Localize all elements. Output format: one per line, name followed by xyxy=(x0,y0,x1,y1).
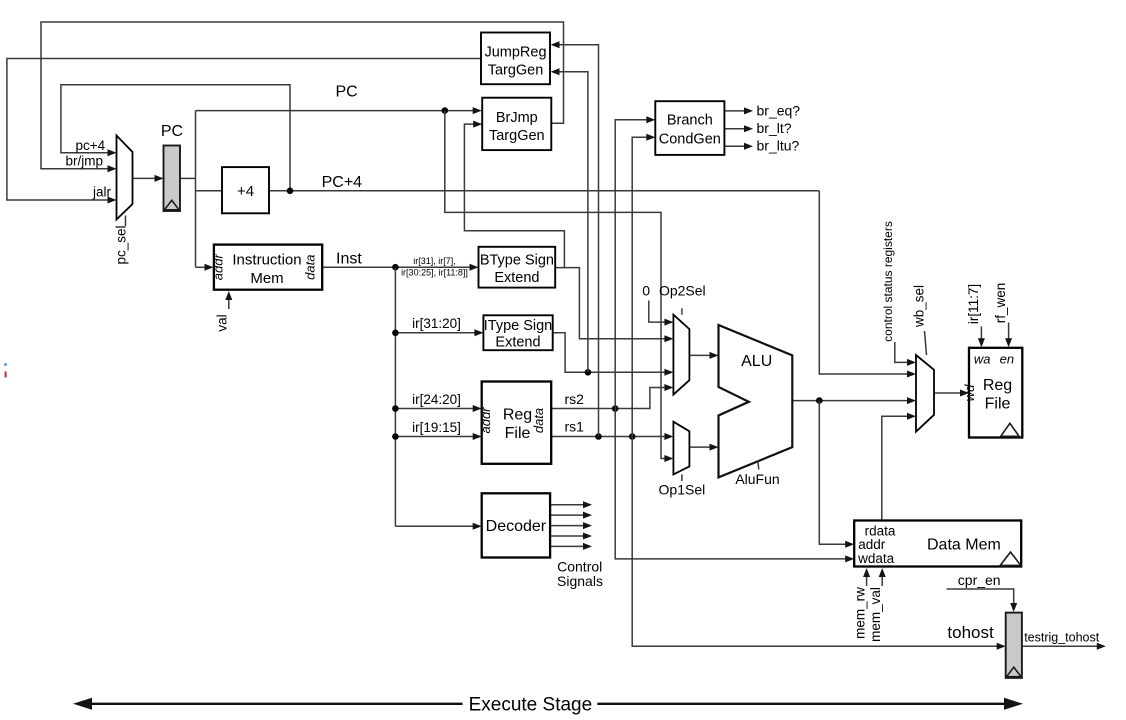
wire control status registers to wb_sel mux xyxy=(895,342,916,366)
node imm junction xyxy=(585,369,592,376)
wire Branch CondGen output br_eq? xyxy=(724,107,753,114)
register PC xyxy=(164,146,181,212)
svg-text:jalr: jalr xyxy=(92,185,112,200)
svg-text:ALU: ALU xyxy=(741,353,772,370)
svg-text:File: File xyxy=(505,425,531,442)
node PC junction on PC line xyxy=(442,107,449,114)
label Op1Sel xyxy=(659,474,706,497)
svg-text:mem_rw: mem_rw xyxy=(852,587,867,639)
svg-text:Decoder: Decoder xyxy=(486,518,547,535)
svg-text:br_eq?: br_eq? xyxy=(757,102,801,118)
block Decoder xyxy=(482,493,550,557)
label br_lt? xyxy=(757,120,792,136)
svg-text:PC: PC xyxy=(336,84,358,101)
svg-text:0: 0 xyxy=(642,283,650,299)
label AluFun xyxy=(735,461,779,488)
node ALU output junction xyxy=(816,397,823,404)
adder U+4 xyxy=(222,167,269,213)
block JumpReg TargGen xyxy=(481,33,550,85)
label br_ltu? xyxy=(757,138,800,154)
wire ir[24:20] to Reg File xyxy=(395,405,481,412)
wire Decoder control signal outputs xyxy=(550,501,592,550)
wire Op1Sel mux output to ALU xyxy=(689,444,718,451)
wire ir[11:7] write-address into Reg File xyxy=(978,327,985,348)
mux Op2Sel xyxy=(673,315,689,395)
svg-text:rs1: rs1 xyxy=(565,419,585,435)
svg-text:ir[24:20]: ir[24:20] xyxy=(412,392,461,407)
wire ir[31:20] to IType Sign Extend xyxy=(395,329,483,336)
block Branch CondGen xyxy=(655,101,724,155)
block Data Mem xyxy=(854,521,1021,567)
wire tohost register output testrig_tohost xyxy=(1022,643,1106,650)
svg-text:Extend: Extend xyxy=(494,270,539,286)
svg-text:br_lt?: br_lt? xyxy=(757,120,792,136)
svg-text:ir[30:25], ir[11:8]]: ir[30:25], ir[11:8]] xyxy=(401,268,468,278)
label wb_sel xyxy=(911,285,926,355)
svg-text:val: val xyxy=(215,314,230,331)
label Inst xyxy=(336,251,362,268)
wire rs1 to tohost register xyxy=(632,437,1006,650)
label rf_wen xyxy=(993,283,1008,324)
artifact blue mark xyxy=(4,363,7,366)
wire ALU output to wb_sel mux xyxy=(792,397,916,404)
svg-text:pc_sel: pc_sel xyxy=(114,225,129,264)
block Instruction Mem xyxy=(211,245,323,290)
artifact red mark xyxy=(5,372,7,378)
register tohost (testrig_tohost) xyxy=(1006,613,1022,678)
wire Inst (Instruction Mem data out) to BType Sign Extend xyxy=(322,264,478,271)
wire rs1 to Branch CondGen xyxy=(632,134,655,437)
svg-text:PC+4: PC+4 xyxy=(322,174,363,191)
wire mem_rw control arrow into Data Mem xyxy=(863,568,870,586)
label rs1 xyxy=(565,419,585,435)
block Reg File (read ports) xyxy=(478,382,551,464)
svg-text:cpr_en: cpr_en xyxy=(958,572,1001,588)
label pc+4 xyxy=(76,138,106,153)
wire Branch CondGen output br_ltu? xyxy=(724,143,753,150)
svg-text:Data Mem: Data Mem xyxy=(927,537,1001,554)
svg-text:Extend: Extend xyxy=(495,335,540,351)
label tohost xyxy=(947,623,994,642)
svg-text:AluFun: AluFun xyxy=(735,471,779,487)
wire constant 0 to Op2Sel mux xyxy=(649,301,674,326)
label ir[11:7] xyxy=(966,284,981,324)
label Execute Stage xyxy=(469,695,593,716)
wire Branch CondGen output br_lt? xyxy=(724,125,753,132)
wire PC to Op1Sel mux xyxy=(445,111,674,462)
svg-text:JumpReg: JumpReg xyxy=(484,45,546,61)
svg-text:Signals: Signals xyxy=(557,573,603,589)
svg-text:Instruction: Instruction xyxy=(232,252,301,269)
wire BType imm to BrJmp TargGen xyxy=(464,121,564,268)
svg-text:wb_sel: wb_sel xyxy=(911,285,926,328)
wire br/jmp feedback (BrJmp TargGen output around top to pc_sel mux) xyxy=(41,22,564,172)
block BrJmp TargGen xyxy=(482,98,551,150)
svg-text:en: en xyxy=(1000,351,1014,366)
svg-text:Op1Sel: Op1Sel xyxy=(659,482,706,498)
label cpr_en xyxy=(958,572,1001,588)
wire imm to JumpReg TargGen xyxy=(551,68,588,372)
label br/jmp xyxy=(66,153,104,168)
label pc_sel xyxy=(114,216,129,265)
label ir[19:15] xyxy=(412,420,461,435)
wire val control arrow into Instruction Mem xyxy=(225,291,232,309)
label jalr xyxy=(92,185,112,200)
wire pc_sel mux output to PC register xyxy=(133,175,164,182)
svg-text:tohost: tohost xyxy=(947,623,994,642)
svg-text:br/jmp: br/jmp xyxy=(66,153,104,168)
node ir junction 2 xyxy=(392,330,399,337)
wire Data Mem rdata to wb_sel mux xyxy=(882,413,916,521)
wire ir[19:15] to Reg File xyxy=(395,433,481,440)
wire Op2Sel mux output to ALU xyxy=(689,352,718,359)
wire rs2 to Branch CondGen xyxy=(615,116,655,408)
node ir junction 3 xyxy=(392,405,399,412)
svg-text:TargGen: TargGen xyxy=(488,63,544,79)
svg-text:pc+4: pc+4 xyxy=(76,138,106,153)
wire PC register output trunk (to PC line, +4, Instruction Mem addr) xyxy=(180,107,482,271)
wire wb_sel mux output to Reg File wd xyxy=(934,390,969,397)
alu ALU xyxy=(719,325,793,477)
wire PC+4 (adder output to wb_sel mux input 2) xyxy=(269,191,916,378)
svg-text:addr: addr xyxy=(478,407,493,434)
node rs2 junction xyxy=(612,405,619,412)
wire ALU output to Data Mem addr xyxy=(819,401,854,548)
mux wb_sel xyxy=(916,355,934,432)
svg-text:Execute Stage: Execute Stage xyxy=(469,695,593,716)
svg-text:BrJmp: BrJmp xyxy=(496,110,538,126)
svg-text:wd: wd xyxy=(962,384,977,401)
svg-text:mem_val: mem_val xyxy=(868,587,883,642)
label val xyxy=(215,314,230,331)
svg-text:Branch: Branch xyxy=(667,113,713,129)
svg-text:br_ltu?: br_ltu? xyxy=(757,138,800,154)
label PC (register) xyxy=(161,123,183,140)
wire rs1 (Reg File out) to Op1Sel mux xyxy=(551,433,673,440)
label Control Signals xyxy=(557,559,603,590)
svg-text:ir[11:7]: ir[11:7] xyxy=(966,284,981,324)
svg-text:Reg: Reg xyxy=(983,377,1012,394)
wire rf_wen write-enable into Reg File xyxy=(1005,323,1012,348)
wire rs2 to Data Mem wdata xyxy=(615,409,854,563)
svg-text:+4: +4 xyxy=(237,183,254,200)
label ir[31], ir[7], ir[30:25], ir[11:8]] xyxy=(401,256,468,277)
svg-text:data: data xyxy=(531,408,546,433)
wire BType Sign Extend output to Op2Sel mux xyxy=(555,268,673,343)
svg-text:Reg: Reg xyxy=(503,406,532,423)
svg-text:addr: addr xyxy=(211,254,226,281)
wire pc+4 feedback (PC+4 junction up and around to pc_sel mux) xyxy=(61,85,290,191)
wire rs2 (Reg File out) to Op2Sel mux xyxy=(551,384,673,409)
wire rs1 to JumpReg TargGen xyxy=(551,41,599,436)
wire instruction trunk vertical xyxy=(394,267,396,526)
svg-text:rf_wen: rf_wen xyxy=(993,283,1008,324)
label ir[24:20] xyxy=(412,392,461,407)
label Op2Sel xyxy=(659,283,706,315)
svg-text:PC: PC xyxy=(161,123,183,140)
block IType Sign Extend xyxy=(483,315,552,350)
execute stage span arrow xyxy=(73,698,1023,710)
block Reg File (write port) xyxy=(962,348,1023,438)
wire instruction to Decoder xyxy=(395,523,481,530)
svg-text:IType Sign: IType Sign xyxy=(484,318,553,334)
svg-text:rs2: rs2 xyxy=(565,391,585,407)
mux Op1Sel xyxy=(673,422,689,475)
label control status registers xyxy=(881,221,895,342)
node ir junction 4 xyxy=(392,433,399,440)
svg-text:File: File xyxy=(985,396,1011,413)
node PC+4 junction xyxy=(287,188,294,195)
label mem_val xyxy=(868,587,883,642)
svg-text:ir[31:20]: ir[31:20] xyxy=(412,316,461,331)
svg-text:ir[19:15]: ir[19:15] xyxy=(412,420,461,435)
wire jalr feedback (JumpReg TargGen output around left to pc_sel mux) xyxy=(7,59,481,204)
label br_eq? xyxy=(757,102,801,118)
label PC+4 xyxy=(322,174,363,191)
label PC (wire) xyxy=(336,84,358,101)
node rs1 junction a xyxy=(595,433,602,440)
node rs1 junction b xyxy=(629,433,636,440)
label rs2 xyxy=(565,391,585,407)
node Inst junction xyxy=(392,264,399,271)
svg-text:Inst: Inst xyxy=(336,251,362,268)
label ir[31:20] xyxy=(412,316,461,331)
svg-text:control status registers: control status registers xyxy=(881,221,895,342)
block BType Sign Extend xyxy=(479,247,556,288)
wire IType Sign Extend output to Op2Sel mux xyxy=(553,333,674,376)
label mem_rw xyxy=(852,587,867,639)
svg-text:BType Sign: BType Sign xyxy=(480,253,554,269)
svg-text:Op2Sel: Op2Sel xyxy=(659,283,706,299)
svg-text:ir[31], ir[7],: ir[31], ir[7], xyxy=(413,256,456,266)
svg-text:data: data xyxy=(303,255,318,280)
svg-text:CondGen: CondGen xyxy=(659,132,721,148)
wire mem_val control arrow into Data Mem xyxy=(879,568,886,586)
svg-text:wa: wa xyxy=(974,351,991,366)
svg-text:addr: addr xyxy=(858,537,886,552)
svg-text:Mem: Mem xyxy=(250,270,283,287)
label 0 constant xyxy=(642,283,650,299)
svg-text:TargGen: TargGen xyxy=(489,128,545,144)
wire cpr_en into tohost register xyxy=(947,589,1018,612)
label testrig_tohost xyxy=(1024,631,1100,645)
svg-text:wdata: wdata xyxy=(857,551,895,566)
mux pc_sel xyxy=(117,136,133,220)
svg-text:testrig_tohost: testrig_tohost xyxy=(1024,631,1100,645)
